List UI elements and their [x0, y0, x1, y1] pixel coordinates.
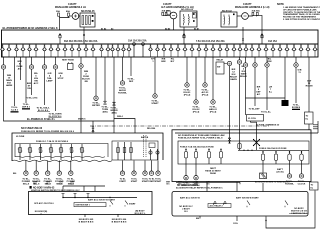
connector M1: [24, 161, 28, 176]
svg-text:MAIN-HARN HARNESS-2 LH: MAIN-HARN HARNESS-2 LH: [55, 6, 86, 9]
fuse F35: [244, 44, 249, 57]
svg-text:B 6: B 6: [33, 184, 36, 186]
J/B fuse JF4: [49, 144, 54, 160]
sub-box fuse b: [123, 142, 126, 160]
svg-text:RELAY: RELAY: [217, 59, 224, 62]
svg-text:START: START: [151, 102, 159, 105]
connector E3: [42, 65, 46, 69]
connector N2: [194, 164, 198, 180]
svg-text:OFF ACC ON ST B 6: OFF ACC ON ST B 6: [34, 202, 54, 205]
svg-text:B BODY B B 8: B BODY B B 8: [112, 221, 127, 223]
fusible link arrow A1: [59, 33, 62, 35]
right inner mid line: [238, 149, 309, 151]
inline unit U1: [216, 62, 224, 74]
connector E12: [211, 100, 215, 104]
junction X1: [254, 140, 260, 146]
small box c2: [167, 11, 170, 14]
svg-text:NO.CHG-02: NO.CHG-02: [181, 9, 194, 11]
connector M4: [57, 161, 61, 176]
connector N3: [287, 164, 291, 178]
svg-text:A/C: A/C: [257, 93, 261, 96]
section-3 right box: [172, 192, 308, 217]
left inner sub-box: [15, 144, 108, 158]
fuse F40: [278, 44, 283, 57]
wire W13: [130, 57, 132, 76]
K2 terminal: [233, 14, 235, 16]
below label b: [112, 219, 127, 224]
left box text row 2: [34, 202, 54, 205]
sub-box fuse c: [130, 142, 133, 160]
circuit 2 caption: [161, 3, 194, 9]
connector E5: [79, 64, 83, 68]
N2 labels: [192, 183, 200, 188]
left box text block R: [135, 211, 146, 215]
svg-text:NEXT PAGE: NEXT PAGE: [62, 58, 74, 61]
svg-text:B 6: B 6: [46, 184, 49, 186]
left block right sub-box: [112, 141, 158, 160]
svg-text:FUSE-01-1 7.5A 10 15 20 FUSE: FUSE-01-1 7.5A 10 15 20 FUSE-8: [36, 140, 69, 143]
right block note: [256, 123, 280, 126]
starter G3: [242, 13, 249, 20]
svg-text:FUSE-8 10A 15A 20 25 FUSE: FUSE-8 10A 15A 20 25 FUSE: [259, 147, 287, 150]
alternator G2: [170, 12, 177, 19]
svg-text:MAIN-HARN HARNESS-2 (L LH): MAIN-HARN HARNESS-2 (L LH): [235, 6, 270, 9]
W24 end label: [292, 105, 301, 109]
fuse F3: [14, 44, 19, 57]
W19a end bowtie: [228, 138, 231, 144]
fuse F2: [7, 44, 12, 57]
fuse block box: [80, 13, 95, 27]
svg-text:C.BATT: C.BATT: [68, 3, 77, 6]
svg-text:(B/6): (B/6): [112, 113, 117, 115]
M8 labels: [142, 179, 149, 183]
svg-text:DEF B 2: DEF B 2: [22, 106, 31, 108]
svg-text:TO: TO: [311, 184, 314, 186]
svg-text:TO: TO: [306, 116, 309, 118]
section-3 left box: [29, 192, 153, 215]
J/B fuse JF1: [18, 144, 23, 160]
wire W18: [212, 57, 214, 100]
right box text block R: [291, 208, 307, 215]
fusible link labels: [56, 10, 70, 13]
hatch marks right edge: [313, 125, 318, 129]
pin labels above bus: [101, 28, 199, 31]
wire W14: [154, 57, 156, 94]
link FL4: [165, 12, 167, 15]
svg-text:EL-POWER/POWER-W-02 HARNESS 2: EL-POWER/POWER-W-02 HARNESS 2 SEL 8: [3, 26, 59, 30]
fuse F41: [285, 44, 290, 57]
wire W25 stub: [308, 124, 310, 130]
svg-text:(PG-2): (PG-2): [184, 95, 191, 97]
fusible link FL1: [58, 13, 60, 16]
rating labels row 3: [196, 40, 225, 43]
W5 labels: [34, 73, 39, 85]
fuse F10: [63, 44, 68, 57]
below label a: [79, 219, 94, 224]
fuse F31: [218, 44, 223, 57]
wire W23: [284, 57, 286, 100]
connector N1: [184, 164, 188, 180]
right box switch b: [285, 201, 288, 208]
fuse F23: [162, 44, 167, 57]
svg-text:START: START: [129, 202, 136, 205]
dashed column a: [143, 135, 145, 157]
wire W15: [186, 57, 188, 83]
svg-text:7.5A 10A 10A 15A 15A 20A: 7.5A 10A 10A 15A 15A 20A: [196, 40, 225, 43]
sub-box fuse a: [117, 142, 120, 160]
svg-text:NO FUSE/FUSE-07 FUSE AND FUSI: NO FUSE/FUSE-07 FUSE AND FUSIBLE LINK: [178, 134, 225, 137]
left box inner box: [74, 203, 106, 207]
wire W11: [113, 57, 115, 121]
connector B2: [113, 102, 116, 105]
W8 labels: [82, 71, 90, 83]
fuse F22: [155, 44, 160, 57]
W6 end label: [36, 106, 50, 111]
left box comp b: [74, 194, 77, 198]
connector E9: [185, 83, 189, 87]
sec2 left block outline: [12, 133, 163, 161]
relay box K2 label: [222, 10, 233, 12]
N1 labels: [182, 183, 190, 188]
svg-text:E6 E7: E6 E7: [194, 29, 199, 31]
left box text row: [88, 198, 116, 201]
M9 labels: [148, 179, 155, 183]
fuse F21: [148, 44, 153, 57]
svg-text:30A 40A 45A 80A 7.5A 10A: 30A 40A 45A 80A 7.5A 10A 15A: [64, 40, 98, 43]
wire fuse block to bus: [83, 27, 85, 44]
W19a labels: [230, 69, 238, 81]
svg-text:AS SHOWN IN WIRE TO WIRE SEL: AS SHOWN IN WIRE TO WIRE SEL B 2: [255, 181, 290, 184]
relay box K1: [180, 11, 197, 27]
svg-text:(B/6): (B/6): [103, 112, 108, 114]
connector M7: [132, 161, 136, 176]
W22 end label: [261, 112, 272, 114]
W20 label box: [247, 115, 264, 122]
branch wire to ground: [246, 97, 286, 99]
sec2 left block label: [21, 127, 75, 133]
svg-text:NO BODY HARN-03: NO BODY HARN-03: [33, 187, 55, 190]
wire W1 bus to section-2: [4, 57, 115, 121]
right inner title L: [180, 146, 214, 149]
svg-text:E1 E2: E1 E2: [101, 29, 106, 31]
fuse F36: [250, 44, 255, 57]
right block fuse RF6: [274, 151, 277, 164]
W16 end label: [192, 107, 200, 114]
svg-text:RELAY: RELAY: [240, 75, 248, 78]
connector on wire: [242, 39, 244, 41]
left circles row tag: [13, 173, 17, 175]
connector E15: [265, 63, 269, 67]
wire W21: [254, 57, 256, 106]
svg-text:TO EL-DEF: TO EL-DEF: [249, 108, 261, 110]
left box switch a: [110, 201, 113, 207]
right box wires in: [207, 182, 263, 191]
battery G1: [72, 13, 79, 20]
fuse F32: [225, 44, 230, 57]
fuse bar c: [89, 16, 91, 25]
connector tick on wire: [83, 34, 85, 36]
J/B fuse JF3: [38, 144, 43, 160]
connector E11: [203, 83, 207, 87]
circuit 1 caption: [55, 3, 86, 9]
svg-text:DEF: DEF: [129, 81, 134, 83]
connector E14: [253, 63, 257, 67]
right block fuse RF1: [184, 149, 187, 165]
right text underline: [289, 213, 308, 215]
wire W10: [104, 57, 106, 101]
wire into left block b: [114, 119, 135, 134]
wire W2: [14, 57, 16, 106]
wire W12: [122, 57, 124, 81]
wire W16: [195, 57, 197, 100]
left box text block L: [35, 211, 48, 215]
fuse F9: [56, 44, 61, 57]
left box junction dots: [62, 197, 110, 198]
connector E2: [29, 65, 33, 69]
fuse F26: [183, 44, 188, 57]
end label GND1: [11, 107, 19, 111]
terminal t1: [92, 15, 94, 17]
relay box K1 label: [181, 9, 194, 11]
W13 end label: [127, 79, 134, 84]
W19 labels: [240, 66, 248, 78]
right box inner box: [208, 204, 231, 208]
wire W3: [20, 57, 22, 80]
left box comp a: [62, 194, 65, 198]
svg-text:A/C: A/C: [18, 68, 22, 71]
wire W24: [295, 57, 297, 103]
svg-text:B/Y: B/Y: [171, 61, 175, 63]
wire G2 down: [173, 19, 175, 30]
svg-text:ROOM/L: ROOM/L: [118, 93, 127, 95]
K1 terminal: [193, 13, 195, 15]
W17 end label: [201, 90, 209, 97]
svg-text:C.BATT: C.BATT: [243, 3, 252, 6]
svg-text:(PG-3): (PG-3): [193, 112, 200, 114]
connector E17: [243, 63, 247, 67]
torn edge wave 2: [15, 156, 105, 157]
coil 1 of K2: [223, 15, 226, 26]
wire W6: [44, 57, 46, 105]
sub-box relay: [149, 143, 155, 148]
svg-text:BATT ACC IGN ST B: BATT ACC IGN ST B: [180, 196, 200, 199]
svg-text:HARN: HARN: [230, 78, 237, 81]
wire below left box a: [84, 214, 86, 217]
right box header: [176, 184, 223, 190]
wire W5: [31, 57, 33, 95]
connector M8: [143, 161, 147, 176]
connector E10: [194, 100, 198, 104]
wire W17: [204, 57, 206, 83]
wire K1 to bus: [183, 27, 185, 44]
svg-text:ACCESSORY RELAY REFER TO EL-P: ACCESSORY RELAY REFER TO EL-POWER B C: [176, 187, 223, 190]
connector pair on wire a: [92, 127, 94, 132]
right block inner top line: [175, 121, 318, 133]
diode pack D1: [62, 58, 74, 61]
rating labels row 1: [64, 40, 98, 43]
wire W20: [245, 57, 247, 115]
svg-text:IG FUSE / HARNESS 30: IG FUSE / HARNESS 30: [256, 123, 280, 126]
fuse F27: [190, 44, 195, 57]
connector M2: [34, 161, 38, 176]
fuse F15: [99, 44, 104, 57]
J/B fuse JF6: [69, 144, 74, 160]
svg-text:METER: METER: [92, 105, 100, 107]
svg-text:EL-POWER-01 B SEL 8 L: EL-POWER-01 B SEL 8 L: [27, 118, 56, 121]
svg-text:FUSE BLOCK REFER TO EL-POWER: FUSE BLOCK REFER TO EL-POWER 2 SEL 8: [178, 137, 223, 139]
svg-text:STOP: STOP: [58, 78, 64, 80]
svg-text:COIL: COIL: [233, 223, 239, 225]
fusible link FL2: [68, 13, 70, 16]
left block inner title: [36, 140, 69, 143]
wire W22: [266, 57, 268, 110]
above-box wire: [63, 186, 105, 191]
right box text row R: [236, 196, 259, 199]
fuse F5: [27, 44, 32, 57]
right block fuse RF5: [261, 151, 264, 164]
fusible link arrow A3: [261, 33, 264, 35]
fuse F37: [257, 44, 262, 57]
W10 end label: [101, 107, 108, 114]
right inner sub-box: [178, 141, 309, 164]
connector B1: [104, 101, 107, 104]
W1 labels: [6, 75, 13, 87]
harness dash-dot line: [90, 125, 270, 127]
sub-box label: [141, 128, 156, 139]
left block tag: [16, 136, 25, 138]
W14 end label: [151, 101, 159, 106]
N4 labels: [298, 181, 306, 186]
svg-text:(PG-3): (PG-3): [210, 112, 217, 114]
fuse F8: [49, 44, 54, 57]
W25 end box: [305, 112, 314, 124]
svg-text:LAMP: LAMP: [46, 80, 53, 83]
right inner title R: [259, 147, 287, 150]
svg-text:E3: E3: [111, 29, 113, 31]
svg-text:IG FUSE: IG FUSE: [16, 136, 25, 138]
W2 labels: [17, 61, 23, 71]
svg-text:C.BATT: C.BATT: [163, 3, 172, 6]
J/B fuse JF7: [80, 144, 85, 160]
label column LC2: [171, 59, 175, 64]
left box small label: [129, 202, 136, 205]
K1 contact box: [193, 13, 197, 19]
block title label: [3, 26, 59, 30]
svg-text:(20 30): (20 30): [277, 172, 284, 174]
right box diode b: [224, 201, 227, 205]
wire W7: [55, 57, 57, 111]
svg-text:BATT IGN SW B START: BATT IGN SW B START: [236, 196, 259, 199]
svg-text:B 6: B 6: [59, 184, 62, 186]
right box diode a: [214, 201, 217, 205]
svg-text:2. SEE FITTED ROUTED OF CONDIT: 2. SEE FITTED ROUTED OF CONDITIONED: [283, 19, 320, 21]
sec2 right block outline: [172, 130, 311, 182]
svg-text:NO FUSE/FUSE-06: NO FUSE/FUSE-06: [21, 127, 43, 130]
right block fuse RF2: [194, 149, 197, 165]
fuse F17: [110, 44, 115, 57]
M1 labels: [22, 178, 31, 185]
circuit 3 caption: [235, 3, 270, 9]
ground block GB2: [260, 173, 267, 179]
ground block GB1: [282, 100, 289, 106]
W24 labels: [298, 70, 302, 75]
wire W19 long: [239, 57, 241, 142]
right box text row L: [180, 196, 200, 199]
fuse bar a: [82, 16, 84, 25]
wire W25: [308, 57, 310, 112]
coil label: [233, 223, 239, 225]
svg-text:(PG-2): (PG-2): [202, 95, 209, 97]
M3 labels: [44, 178, 53, 185]
label column LC3: [267, 59, 272, 64]
svg-text:10A 15A 20A 25A: 10A 15A 20A 25A: [128, 40, 147, 43]
W21 labels: [256, 87, 261, 96]
M4 labels: [55, 178, 64, 185]
fuse F16: [106, 44, 111, 57]
rating labels row 2: [128, 40, 147, 43]
NOTE text: [283, 6, 320, 21]
wire G3 to bus: [248, 15, 262, 44]
fuse F45 on bus: [133, 43, 136, 57]
top right tag box: [310, 182, 319, 190]
fuse F30: [211, 44, 216, 57]
connector M6: [120, 161, 124, 176]
terminal t2: [92, 20, 94, 22]
fuse F12: [77, 44, 82, 57]
main fusible-link block outline: [2, 30, 319, 57]
W25 labels: [306, 81, 313, 88]
wire node to bus: [59, 38, 61, 44]
fuse F7: [42, 44, 47, 57]
connector M3: [46, 161, 50, 176]
return wire to tag box: [266, 191, 315, 229]
right block header: [178, 134, 225, 140]
svg-text:ROOM: ROOM: [306, 86, 313, 88]
W18 end label: [209, 107, 218, 114]
fuse F44: [306, 44, 311, 57]
wire links to G2: [163, 14, 170, 16]
N3 labels: [285, 181, 294, 186]
svg-text:SEL-8: SEL-8: [23, 183, 30, 185]
svg-text:NO 6 B C L: NO 6 B C L: [135, 213, 146, 215]
M7 labels: [131, 179, 138, 183]
input bus wire: [176, 182, 240, 184]
fuse F13: [84, 44, 89, 57]
right block fuse RF3: [207, 149, 210, 165]
fuse F45: [313, 44, 318, 57]
svg-text:W/B 4: W/B 4: [117, 115, 123, 118]
wire below right box: [199, 216, 201, 219]
link FL5: [252, 12, 254, 15]
fuse F4: [21, 44, 26, 57]
M10 labels: [155, 179, 162, 183]
rating labels row 4: [268, 40, 277, 43]
right box switch a: [247, 201, 250, 208]
fuse F46 on bus: [142, 43, 145, 57]
above-box labels R: [166, 181, 210, 185]
svg-text:B 6: B 6: [166, 184, 169, 186]
svg-text:NO BODY HARN-05: NO BODY HARN-05: [177, 184, 199, 187]
svg-text:BATT B: BATT B: [141, 136, 149, 139]
W7 end label: [49, 113, 63, 117]
wire W8 to section-2: [80, 57, 82, 133]
W4 labels: [27, 83, 32, 90]
M2 labels: [32, 178, 41, 185]
torn edge wave 1: [12, 160, 112, 161]
W12 end label: [118, 88, 127, 95]
wire below left box b: [117, 214, 119, 217]
fuse F28: [197, 44, 202, 57]
